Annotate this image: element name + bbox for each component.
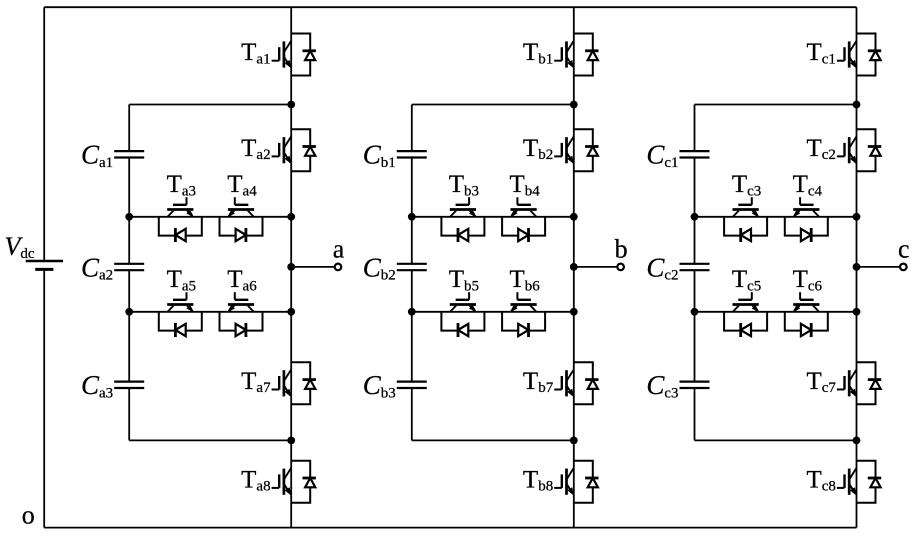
transistor Tb7: [554, 362, 598, 404]
transistor Tb6: [502, 292, 545, 337]
wire phase c upper link: [695, 104, 857, 106]
transistor Tc2: [837, 129, 881, 171]
wire phase b clamp row 2: [412, 311, 574, 313]
transistor Tb1: [554, 34, 598, 76]
transistor Ta3: [159, 197, 202, 242]
capacitor Cc3: [680, 382, 710, 388]
transistor Ta5: [159, 292, 202, 337]
junction phase a clamp row1 inner: [125, 213, 133, 221]
transistor Tb4: [502, 197, 545, 242]
wire phase a clamp row 1: [129, 216, 291, 218]
svg-text:o: o: [22, 501, 35, 530]
junction phase a bottom link: [287, 437, 295, 445]
wire left rail lower (Vdc negative): [43, 271, 45, 528]
wire phase a output lead: [291, 266, 335, 268]
wire phase c clamp row 1: [695, 216, 857, 218]
junction phase b output: [570, 263, 578, 271]
transistor Tc8: [837, 461, 881, 503]
capacitor Cb1: [397, 151, 427, 157]
junction phase b top link: [570, 101, 578, 109]
capacitor Cb2: [397, 264, 427, 270]
junction phase a clamp row2 main: [287, 308, 295, 316]
transistor Ta7: [272, 362, 316, 404]
battery Vdc: [26, 261, 63, 269]
junction phase c top link: [853, 101, 861, 109]
junction phase a clamp row1 main: [287, 213, 295, 221]
transistor Ta4: [220, 197, 263, 242]
junction phase c bottom link: [853, 437, 861, 445]
junction phase a top link: [287, 101, 295, 109]
wire phase a upper link: [129, 104, 291, 106]
transistor Ta8: [272, 461, 316, 503]
wire left rail upper (Vdc positive): [43, 7, 45, 260]
node b terminal: [617, 264, 624, 271]
wire phase b output lead: [574, 266, 618, 268]
wire phase c output lead: [857, 266, 901, 268]
transistor Tc5: [724, 292, 767, 337]
node c terminal: [900, 264, 907, 271]
wire phase c inner vertical segment 2: [694, 158, 696, 264]
node a terminal: [335, 264, 342, 271]
junction phase c clamp row2 inner: [691, 308, 699, 316]
wire phase b upper link: [412, 104, 574, 106]
wire phase c lower link: [695, 439, 857, 441]
svg-text:c: c: [898, 235, 910, 264]
wire phase c inner vertical segment 4: [694, 388, 696, 440]
wire bottom DC rail (node o): [44, 527, 856, 529]
wire phase c main vertical: [856, 7, 858, 527]
wire phase a inner vertical segment 1: [128, 105, 130, 152]
junction phase b clamp row1 inner: [408, 213, 416, 221]
capacitor Cc2: [680, 264, 710, 270]
capacitor Cb3: [397, 382, 427, 388]
wire phase b lower link: [412, 439, 574, 441]
junction phase a clamp row2 inner: [125, 308, 133, 316]
junction phase c clamp row1 main: [853, 213, 861, 221]
wire phase b inner vertical segment 4: [411, 388, 413, 440]
transistor Tb2: [554, 129, 598, 171]
transistor Tc6: [785, 292, 828, 337]
wire phase b inner vertical segment 3: [411, 270, 413, 381]
svg-text:b: b: [615, 235, 628, 264]
transistor Ta2: [272, 129, 316, 171]
wire phase c clamp row 2: [695, 311, 857, 313]
wire phase a clamp row 2: [129, 311, 291, 313]
wire phase b inner vertical segment 1: [411, 105, 413, 152]
wire phase a inner vertical segment 4: [128, 388, 130, 440]
wire top DC rail: [44, 6, 856, 8]
svg-text:a: a: [333, 235, 345, 264]
junction phase b bottom link: [570, 437, 578, 445]
junction phase b clamp row2 main: [570, 308, 578, 316]
transistor Tc7: [837, 362, 881, 404]
transistor Tb8: [554, 461, 598, 503]
junction phase c clamp row1 inner: [691, 213, 699, 221]
transistor Tc4: [785, 197, 828, 242]
transistor Ta6: [220, 292, 263, 337]
capacitor Ca2: [114, 264, 144, 270]
wire phase b main vertical: [573, 7, 575, 527]
junction phase c clamp row2 main: [853, 308, 861, 316]
junction phase b clamp row2 inner: [408, 308, 416, 316]
junction phase c output: [853, 263, 861, 271]
wire phase a inner vertical segment 3: [128, 270, 130, 381]
transistor Tc1: [837, 34, 881, 76]
transistor Tb3: [441, 197, 484, 242]
transistor Tc3: [724, 197, 767, 242]
wire phase c inner vertical segment 3: [694, 270, 696, 381]
wire phase a main vertical: [290, 7, 292, 527]
wire phase c inner vertical segment 1: [694, 105, 696, 152]
wire phase b clamp row 1: [412, 216, 574, 218]
junction phase a output: [287, 263, 295, 271]
transistor Ta1: [272, 34, 316, 76]
junction phase b clamp row1 main: [570, 213, 578, 221]
capacitor Ca1: [114, 151, 144, 157]
capacitor Ca3: [114, 382, 144, 388]
capacitor Cc1: [680, 151, 710, 157]
wire phase a lower link: [129, 439, 291, 441]
wire phase b inner vertical segment 2: [411, 158, 413, 264]
transistor Tb5: [441, 292, 484, 337]
wire phase a inner vertical segment 2: [128, 158, 130, 264]
